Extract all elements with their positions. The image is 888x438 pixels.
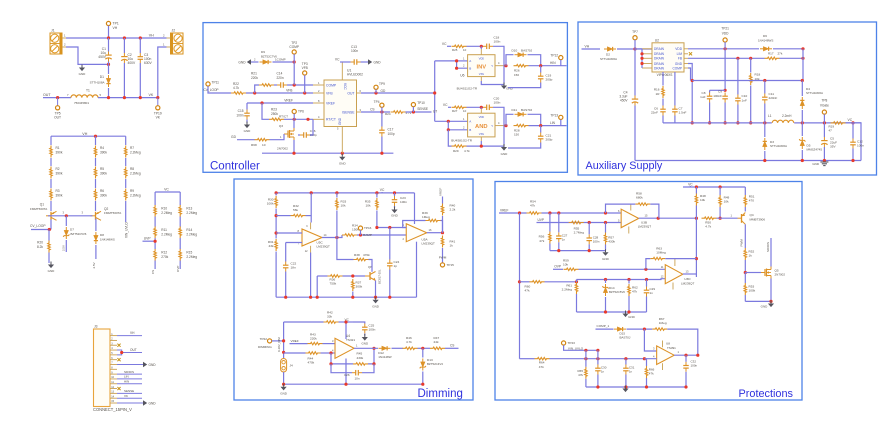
svg-text:GND: GND	[48, 269, 56, 273]
junction	[644, 268, 647, 271]
svg-text:2.2Meg: 2.2Meg	[130, 194, 141, 198]
wire VC down	[846, 123, 862, 161]
wire	[719, 207, 721, 218]
junction	[684, 385, 687, 388]
wire	[376, 211, 378, 228]
wire C12 down	[852, 149, 854, 161]
diode D9	[260, 50, 278, 64]
test point TP6	[292, 109, 304, 113]
svg-text:100k: 100k	[267, 202, 274, 206]
pin 1	[110, 333, 117, 336]
wire	[298, 134, 300, 136]
wire	[339, 321, 354, 323]
svg-text:VDD: VDD	[722, 31, 729, 35]
resistor R39	[422, 211, 441, 222]
resistor R37	[352, 279, 363, 291]
svg-text:VC: VC	[335, 57, 340, 61]
wire to C12	[852, 123, 854, 139]
junction	[293, 83, 296, 86]
wire	[646, 359, 648, 366]
ground	[761, 301, 774, 309]
ground	[339, 154, 347, 166]
wire	[646, 280, 648, 287]
svg-text:2.7Meg: 2.7Meg	[574, 231, 585, 235]
junction	[374, 296, 377, 299]
no-connect X pin6	[117, 358, 120, 361]
svg-text:100n: 100n	[593, 240, 600, 244]
capacitor C3	[138, 53, 153, 65]
svg-text:CS: CS	[370, 107, 374, 111]
junction	[433, 91, 436, 94]
pin 13	[110, 391, 117, 394]
wire	[275, 209, 277, 239]
wire to Q5 gate	[745, 272, 761, 274]
junction	[372, 347, 375, 350]
wire	[125, 136, 127, 145]
junction	[65, 214, 68, 217]
svg-text:Auxiliary Supply: Auxiliary Supply	[586, 160, 663, 172]
ground arrow	[368, 59, 381, 65]
svg-text:680k: 680k	[636, 196, 643, 200]
wire stub	[381, 191, 383, 194]
junction	[139, 96, 142, 99]
diode D3	[763, 138, 787, 150]
svg-text:TS321: TS321	[346, 338, 355, 342]
junction	[455, 59, 458, 62]
svg-text:1n: 1n	[562, 238, 566, 242]
svg-text:GND: GND	[374, 60, 382, 64]
junction	[107, 96, 110, 99]
wire to C22	[285, 243, 287, 262]
resistor R53	[744, 283, 756, 295]
junction	[851, 159, 854, 162]
resistor R54	[527, 200, 542, 215]
svg-text:R10: R10	[161, 207, 167, 211]
test point TP19	[154, 98, 162, 120]
resistor R65	[577, 367, 587, 379]
wire	[646, 378, 648, 387]
junction	[633, 47, 636, 50]
wire	[275, 252, 277, 298]
wire ISENSE	[361, 111, 390, 113]
svg-text:1nF: 1nF	[742, 98, 747, 102]
resistor R2	[50, 167, 63, 179]
capacitor C30	[595, 365, 607, 375]
svg-text:450V: 450V	[98, 55, 107, 59]
wire	[392, 347, 404, 349]
svg-text:U2: U2	[655, 39, 659, 43]
wire D5 to gnd rail	[801, 150, 803, 161]
junction	[749, 57, 752, 60]
svg-text:J3: J3	[94, 324, 98, 328]
junction	[293, 60, 296, 63]
diode D12	[378, 346, 392, 359]
wire GND pin15	[117, 402, 143, 404]
svg-text:10n: 10n	[354, 377, 359, 381]
resistor R34	[342, 224, 359, 237]
junction	[260, 101, 263, 104]
junction	[123, 96, 126, 99]
diode D5	[799, 137, 822, 152]
junction	[801, 79, 804, 82]
IC U2 VIPer06XS	[642, 39, 688, 77]
wire COMP down	[688, 68, 691, 81]
wire R53 down	[744, 295, 746, 301]
svg-text:35V: 35V	[830, 145, 836, 149]
svg-text:10Meg: 10Meg	[656, 251, 666, 255]
svg-text:OUT: OUT	[347, 91, 354, 95]
wire GND pin7	[117, 363, 143, 365]
wire	[95, 245, 97, 259]
svg-text:GND: GND	[602, 257, 610, 261]
svg-text:630V: 630V	[144, 61, 153, 65]
wire	[50, 136, 52, 145]
svg-text:VDD: VDD	[675, 47, 682, 51]
connector J3	[93, 324, 132, 412]
junction	[624, 385, 627, 388]
svg-text:200p: 200p	[546, 78, 553, 82]
junction	[596, 357, 599, 360]
inductor L1	[768, 114, 794, 123]
svg-text:4.7k: 4.7k	[406, 340, 412, 344]
capacitor C6	[651, 106, 666, 116]
wire C26 left	[331, 364, 352, 373]
transformer T1	[67, 88, 102, 105]
svg-text:1N4148WS: 1N4148WS	[100, 238, 115, 242]
wire TP4 stem	[381, 107, 383, 112]
junction	[351, 296, 354, 299]
wire C6 down	[662, 116, 664, 123]
junction	[736, 57, 739, 60]
wire aux gnd rail	[635, 160, 861, 162]
svg-text:A: A	[469, 120, 471, 124]
svg-text:47k: 47k	[525, 289, 530, 293]
resistor R67	[652, 317, 667, 330]
op-amp U5C	[298, 223, 330, 254]
junction	[375, 191, 378, 194]
svg-text:R13: R13	[186, 207, 192, 211]
svg-text:400V: 400V	[128, 61, 137, 65]
svg-text:VH: VH	[149, 33, 154, 37]
wire	[50, 179, 52, 188]
junction	[708, 121, 711, 124]
transistor Q5	[761, 267, 785, 279]
wire C13 to gnd	[361, 61, 369, 63]
wire TP21 stem	[724, 42, 726, 49]
logic gate U7 AND	[468, 109, 506, 141]
wire Vss down	[480, 141, 482, 146]
resistor R17	[765, 52, 783, 60]
junction	[588, 221, 591, 224]
junction	[421, 347, 424, 350]
op-amp U3D	[661, 259, 695, 290]
svg-text:VC: VC	[848, 118, 853, 122]
resistor R23	[269, 108, 284, 121]
wire INV B	[457, 61, 468, 68]
wire fb left	[606, 204, 636, 213]
svg-text:390k: 390k	[56, 194, 63, 198]
junction	[335, 191, 338, 194]
logic gate U6 INV	[468, 49, 506, 81]
svg-text:10: 10	[262, 143, 266, 147]
wire	[275, 193, 277, 196]
wire R24 to SENSE	[406, 111, 432, 113]
wire to C25	[353, 322, 365, 324]
capacitor C13	[351, 45, 361, 65]
svg-text:470: 470	[749, 199, 754, 203]
wire gnd row	[745, 300, 771, 302]
ground	[244, 122, 252, 134]
ground	[501, 83, 514, 91]
pin 7	[110, 362, 117, 365]
capacitor C16	[300, 129, 317, 138]
junction	[388, 296, 391, 299]
wire	[50, 158, 52, 166]
svg-text:STTH108A: STTH108A	[90, 81, 105, 85]
junction	[645, 385, 648, 388]
transistor Q3	[277, 124, 294, 151]
resistor R36	[328, 275, 343, 286]
svg-text:VIN_UVLO: VIN_UVLO	[124, 222, 128, 238]
svg-text:200p: 200p	[546, 138, 553, 142]
wire to INV inputs	[435, 60, 457, 62]
resistor R68	[251, 138, 270, 146]
svg-text:R3: R3	[56, 189, 60, 193]
svg-text:DRAIN: DRAIN	[654, 57, 665, 61]
junction	[557, 249, 560, 252]
svg-text:1k: 1k	[749, 254, 753, 258]
resistor R58	[635, 192, 650, 206]
svg-text:0-10V_DIM: 0-10V_DIM	[277, 337, 281, 352]
wire	[625, 375, 627, 388]
svg-text:CV_LOOP: CV_LOOP	[204, 88, 219, 92]
wire to D11	[506, 114, 514, 125]
wire C22 down	[285, 272, 287, 298]
svg-text:D11: D11	[512, 108, 518, 112]
svg-text:27k: 27k	[778, 52, 783, 56]
svg-text:R1: R1	[56, 146, 60, 150]
svg-text:VSS: VSS	[479, 72, 485, 76]
capacitor C25	[362, 324, 376, 334]
resistor R31	[268, 239, 278, 251]
wire Q2 base	[66, 215, 92, 217]
svg-text:R8: R8	[130, 167, 134, 171]
svg-text:BC817-25L: BC817-25L	[378, 269, 382, 284]
capacitor C11	[762, 92, 777, 104]
wire COMP_1	[596, 328, 614, 330]
resistor R14	[179, 226, 197, 238]
wire C18 to gnd	[493, 46, 504, 84]
wire to D13	[422, 348, 424, 357]
wire	[336, 193, 338, 198]
junction	[588, 249, 591, 252]
resistor R19	[829, 122, 846, 133]
svg-text:D1: D1	[100, 75, 104, 79]
wire	[376, 193, 378, 198]
wire to D5	[801, 123, 803, 136]
svg-text:47k: 47k	[578, 373, 583, 377]
wire	[576, 280, 578, 283]
svg-text:GND: GND	[238, 60, 246, 64]
svg-text:L1: L1	[768, 114, 772, 118]
pin 5	[110, 352, 117, 355]
resistor R15	[179, 249, 197, 261]
resistor R49	[719, 195, 730, 207]
svg-text:UVP: UVP	[538, 218, 545, 222]
transistor Q1	[30, 203, 57, 221]
svg-text:LM239QT: LM239QT	[317, 245, 331, 249]
capacitor C22	[283, 262, 297, 272]
svg-text:INV: INV	[476, 64, 486, 70]
junction	[645, 278, 648, 281]
junction	[282, 383, 285, 386]
resistor R3	[50, 189, 63, 201]
junction	[539, 124, 542, 127]
svg-text:AND: AND	[475, 124, 488, 130]
test point TP12	[550, 54, 563, 60]
wire output row left	[663, 122, 772, 124]
wire	[597, 350, 599, 364]
junction	[769, 300, 772, 303]
svg-text:18n: 18n	[291, 266, 296, 270]
wire OUT to bus	[361, 92, 435, 94]
svg-text:2.2Meg: 2.2Meg	[186, 211, 197, 215]
resistor R60	[525, 281, 545, 293]
capacitor C15	[236, 109, 249, 120]
svg-text:Q3: Q3	[279, 124, 283, 128]
resistor R16	[654, 86, 664, 98]
junction	[393, 191, 396, 194]
junction	[801, 159, 804, 162]
wire Q6 emitter down	[375, 281, 377, 298]
test point TP3	[302, 62, 308, 75]
wire D3 to gnd rail	[764, 151, 766, 161]
resistor R47	[430, 336, 445, 350]
junction	[643, 357, 646, 360]
wire INV A	[457, 60, 468, 62]
ground arrow	[238, 59, 251, 65]
svg-text:LM239QT: LM239QT	[638, 225, 652, 229]
svg-text:A: A	[469, 59, 471, 63]
svg-text:TS391: TS391	[667, 346, 676, 350]
resistor R9	[124, 189, 140, 201]
wire	[371, 270, 373, 272]
svg-text:2.2Meg: 2.2Meg	[161, 233, 172, 237]
svg-text:FMMT560TA: FMMT560TA	[30, 207, 47, 211]
svg-text:ISENSE: ISENSE	[342, 110, 355, 114]
svg-text:220k: 220k	[310, 337, 317, 341]
svg-text:390k: 390k	[56, 172, 63, 176]
svg-text:VREF: VREF	[500, 208, 509, 212]
svg-text:430k: 430k	[357, 356, 364, 360]
junction	[557, 211, 560, 214]
junction	[604, 221, 607, 224]
junction	[380, 110, 383, 113]
svg-text:430k: 430k	[608, 240, 615, 244]
resistor R38	[354, 253, 371, 261]
test point TP13	[550, 113, 563, 119]
wire output row right	[794, 122, 861, 124]
wire R17 out	[780, 57, 804, 59]
resistor R7	[124, 146, 140, 158]
wire TP12 stem	[560, 60, 562, 66]
pin 6	[110, 357, 117, 360]
junction	[643, 328, 646, 331]
junction	[695, 217, 698, 220]
wire R63 right	[665, 258, 696, 260]
wire C4 to gnd rail	[634, 106, 636, 161]
wire	[274, 84, 277, 86]
junction	[329, 362, 332, 365]
svg-text:10k: 10k	[724, 200, 729, 204]
svg-text:47k: 47k	[649, 372, 654, 376]
wire dimming gnd rail	[284, 383, 423, 385]
svg-text:TP10: TP10	[417, 101, 425, 105]
wire VDD stub	[480, 107, 482, 109]
svg-text:TP12: TP12	[550, 54, 558, 58]
wire	[549, 244, 551, 251]
resistor R45	[353, 352, 368, 366]
wire	[576, 294, 578, 312]
svg-text:TP3: TP3	[302, 62, 308, 66]
wire VH to C1	[108, 38, 110, 52]
junction	[684, 354, 687, 357]
wire R52 down	[744, 260, 746, 273]
svg-text:CONNECT_15PIN_V: CONNECT_15PIN_V	[93, 407, 132, 412]
wire R54 to U3B +in	[542, 212, 622, 214]
svg-text:R9: R9	[130, 189, 134, 193]
svg-text:1p: 1p	[394, 264, 398, 268]
svg-text:DRAIN: DRAIN	[654, 62, 665, 66]
junction	[724, 47, 727, 50]
junction	[657, 217, 660, 220]
svg-text:VDD: VDD	[479, 115, 485, 119]
wire Vss to gnd	[481, 81, 504, 85]
wire R16 to C6	[662, 99, 664, 106]
svg-text:1.5nF: 1.5nF	[679, 111, 687, 115]
svg-text:LIN: LIN	[550, 121, 556, 125]
wire U5A out	[427, 232, 443, 234]
svg-text:OUT: OUT	[130, 348, 137, 352]
diode D1	[90, 75, 111, 87]
svg-text:TP13: TP13	[550, 113, 558, 117]
svg-text:D8: D8	[100, 233, 104, 237]
wire VH to C3	[139, 38, 141, 53]
wire TP16 stem	[360, 230, 362, 235]
wire	[125, 201, 127, 222]
wire VC	[448, 106, 451, 108]
transistor Q4	[738, 213, 766, 225]
svg-text:10: 10	[463, 48, 467, 52]
svg-text:R6: R6	[100, 189, 104, 193]
svg-text:1N4148WS: 1N4148WS	[758, 38, 773, 42]
wire	[48, 230, 50, 241]
wire	[442, 248, 444, 263]
svg-text:470k: 470k	[308, 361, 315, 365]
junction	[584, 357, 587, 360]
resistor R35	[365, 198, 378, 210]
svg-text:COMP_1: COMP_1	[597, 324, 610, 328]
svg-text:1Meg: 1Meg	[659, 321, 667, 325]
svg-text:390k: 390k	[100, 151, 107, 155]
junction	[374, 91, 377, 94]
junction	[335, 236, 338, 239]
wire	[585, 379, 587, 387]
svg-text:GND: GND	[675, 62, 683, 66]
svg-text:24k: 24k	[434, 340, 439, 344]
capacitor C1	[98, 47, 111, 62]
wire controller gnd rail	[262, 152, 393, 154]
